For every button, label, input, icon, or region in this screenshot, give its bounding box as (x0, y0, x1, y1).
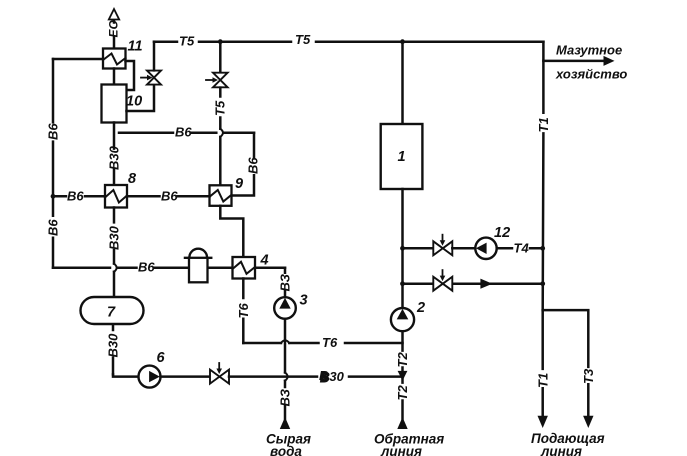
svg-text:Т5: Т5 (213, 100, 228, 116)
svg-text:Т2: Т2 (395, 385, 410, 401)
vent arrow (open) (109, 9, 119, 20)
heat exchanger U4 (233, 257, 256, 279)
wire: box11 to box10 (113, 69, 116, 85)
label B6 before box8 (67, 188, 84, 203)
wire: B6 main line (dot to box8 to box9) (53, 195, 210, 198)
wire: B30 to T2 junction (349, 375, 401, 378)
svg-text:Т6: Т6 (322, 335, 338, 350)
wire: pump6 to valve V6 (161, 375, 210, 378)
svg-text:3: 3 (300, 293, 308, 309)
svg-text:Т3: Т3 (581, 368, 596, 384)
raw water inlet arrow (280, 417, 290, 429)
svg-text:Мазутное: Мазутное (556, 43, 622, 58)
node junction dot branch1 right (540, 246, 545, 251)
wire hop: B30 over bottom B6 line (114, 264, 117, 272)
pump 6 (139, 366, 161, 388)
wire: bottom B6 header (53, 267, 285, 270)
wire: vent line above box 11 (113, 20, 116, 49)
wire: box4 right down to pump 3 (284, 268, 287, 298)
tank 7 (deaerator) (81, 297, 144, 324)
svg-text:В6: В6 (46, 123, 61, 140)
svg-text:6: 6 (157, 350, 166, 366)
wire: box8 down to tank 7 (113, 208, 116, 298)
node junction dot left (51, 194, 56, 199)
svg-text:В30: В30 (107, 145, 122, 170)
label T5 second (295, 32, 311, 47)
svg-text:Т4: Т4 (514, 240, 530, 255)
svg-text:В: В (320, 370, 329, 385)
node junction dot branch1 left (400, 246, 405, 251)
filter F1 (185, 257, 211, 259)
valve V6 (210, 370, 229, 384)
wire: fuel-oil branch (543, 60, 604, 63)
boiler 1 (381, 124, 423, 189)
wire: top T5 header (154, 40, 543, 43)
label return line (374, 432, 444, 456)
svg-text:Т1: Т1 (535, 373, 550, 388)
svg-text:ЕО: ЕО (106, 19, 120, 37)
node junction dot T5/main (400, 39, 405, 44)
wire: box10 right to valve V1 riser (127, 85, 155, 111)
valve V3 actuator arrow (442, 235, 444, 241)
wire: pump12 to T4 label (497, 247, 543, 250)
label T4 (514, 240, 530, 255)
svg-text:В6: В6 (46, 219, 61, 236)
svg-text:В30: В30 (107, 225, 122, 250)
return line inlet arrow (397, 417, 407, 429)
supply arrow T1 (538, 416, 548, 428)
label supply line (531, 431, 605, 456)
label T5 first (179, 33, 195, 48)
wire: main riser top (T5 to box1) (401, 42, 404, 124)
wire hop: T6 over VZ line (281, 340, 289, 343)
wire: pump3 down across T6 and B30 (284, 319, 287, 387)
svg-text:В30: В30 (106, 333, 121, 358)
wire: V1 to top T5 line (153, 42, 156, 71)
label T6 horizontal (322, 335, 338, 350)
svg-text:2: 2 (416, 300, 425, 316)
wire: central B30 line box10 to box8 (113, 123, 116, 186)
label fuel-oil 2 (555, 67, 627, 82)
valve V1 (on riser to T5) (147, 71, 161, 85)
label B6 left upper (46, 123, 61, 140)
svg-text:8: 8 (128, 171, 137, 187)
wire: box11 left to left header (53, 58, 103, 61)
wire: T1 down to supply (541, 310, 544, 416)
wire: branch2 (403, 282, 543, 285)
wire: B30 bottom header left part (113, 374, 138, 376)
svg-text:В6: В6 (138, 260, 155, 275)
svg-text:В6: В6 (67, 188, 84, 203)
wire: to raw water arrow (284, 406, 287, 419)
tank 10 (102, 85, 127, 123)
label T2 upper (395, 352, 410, 368)
svg-text:4: 4 (260, 253, 269, 269)
valve V1 actuator arrow (141, 77, 147, 79)
valve V4 actuator arrow (442, 270, 444, 276)
svg-text:линия: линия (540, 444, 582, 456)
wire hop: T5 drop over B6 mid line (220, 129, 223, 137)
svg-text:линия: линия (380, 444, 422, 456)
wire: right T1 header (541, 42, 544, 310)
label B6 on right drop (246, 157, 261, 174)
wire: T6 from box4 down (242, 279, 245, 344)
wire: T6 horizontal to pump2 line (243, 342, 402, 345)
label B6 after box8 (161, 188, 178, 203)
valve V6 actuator arrow (218, 363, 220, 369)
svg-text:Т5: Т5 (179, 33, 195, 48)
svg-text:9: 9 (235, 176, 243, 192)
label T5 on drop (213, 100, 228, 116)
valve V2 actuator arrow (206, 79, 212, 81)
label raw water (266, 432, 311, 456)
svg-text:7: 7 (107, 305, 116, 321)
wire: tank7 feed (112, 324, 115, 374)
label B6 mid (175, 125, 192, 140)
svg-text:10: 10 (126, 94, 142, 110)
wire: V2 down to box 9 (219, 88, 222, 186)
label B30 below box8 (107, 225, 122, 250)
node junction dot branch2 right (540, 281, 545, 286)
svg-text:Т1: Т1 (536, 117, 551, 132)
wire: V3 to pump12 (452, 247, 475, 250)
wire: supply branch split (543, 310, 589, 416)
wire: branch1 left segment (403, 247, 434, 250)
node junction dot branch2 left (400, 281, 405, 286)
pump 2 (391, 308, 414, 331)
label T1 upper (536, 117, 551, 132)
label T1 lower (535, 373, 550, 388)
fuel-oil arrow (604, 56, 615, 66)
label B30 upper (107, 145, 122, 170)
label T6 vertical (236, 303, 251, 319)
svg-text:12: 12 (494, 225, 510, 241)
node junction dot T5/drop (218, 39, 223, 44)
check valve arrow on branch2 (480, 279, 492, 289)
flow arrow at B30/T2 junction (398, 371, 408, 381)
wire: B6 mid line from box10 (119, 132, 254, 135)
svg-text:В6: В6 (161, 188, 178, 203)
heat exchanger U8 (105, 185, 127, 208)
svg-text:Т6: Т6 (236, 303, 251, 319)
valve V3 (433, 241, 452, 255)
label VZ lower (278, 388, 293, 406)
wire: box9 bottom jog to box4 (220, 206, 243, 257)
svg-text:Т2: Т2 (395, 352, 410, 368)
label V3 (VZ) above pump3 (278, 273, 293, 291)
svg-text:хозяйство: хозяйство (555, 67, 627, 82)
label B6 left lower (46, 219, 61, 236)
label T3 (581, 368, 596, 384)
node EO label (106, 19, 120, 37)
wire: box11 right loop to box10 (126, 61, 135, 90)
svg-text:В6: В6 (175, 125, 192, 140)
label T2 lower (395, 385, 410, 401)
heat exchanger U9 (210, 185, 232, 206)
supply arrow T3 (583, 416, 593, 428)
heat exchanger U11 (103, 49, 126, 69)
svg-text:ВЗ: ВЗ (278, 388, 293, 406)
label B30 below tank (106, 333, 121, 358)
wire: T5 drop to valve V2 (219, 42, 222, 72)
label B30 bottom (smudged B) (319, 368, 345, 385)
wire: left B6 vertical header (52, 59, 55, 268)
svg-text:ВЗ: ВЗ (278, 273, 293, 291)
wire hop: VZ line over B30 (285, 373, 288, 381)
svg-text:Т5: Т5 (295, 32, 311, 47)
wire: B6 right drop to box9 (232, 133, 255, 196)
pump 3 (274, 297, 296, 319)
wire: V6 to B30 label (229, 375, 317, 378)
svg-text:1: 1 (398, 149, 406, 165)
label fuel-oil 1 (556, 43, 622, 58)
wire: box1 to pump2 (401, 189, 404, 308)
label B6 bottom (138, 260, 155, 275)
svg-text:В6: В6 (246, 157, 261, 174)
valve V2 (213, 73, 228, 88)
svg-text:11: 11 (128, 39, 143, 55)
svg-text:вода: вода (270, 444, 302, 456)
valve V4 (433, 277, 452, 291)
pump 12 (475, 238, 496, 259)
wire: pump2 down T2 (401, 331, 404, 418)
